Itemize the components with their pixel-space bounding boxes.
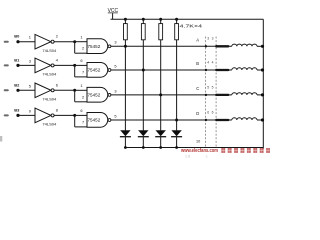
svg-text:6: 6 [80, 108, 82, 113]
svg-text:2: 2 [82, 46, 84, 51]
svg-text:B1: B1 [14, 57, 20, 62]
svg-text:75452: 75452 [88, 44, 102, 49]
svg-text:·1: ·1 [205, 154, 208, 158]
svg-text:75452: 75452 [88, 68, 102, 73]
svg-text:6: 6 [56, 82, 58, 87]
svg-text:5: 5 [29, 83, 31, 88]
svg-text:1: 1 [80, 83, 82, 88]
svg-text:3: 3 [114, 88, 116, 93]
svg-text:74LS04: 74LS04 [42, 48, 57, 53]
svg-text:1 8: 1 8 [185, 155, 190, 159]
svg-text:2: 2 [56, 34, 58, 39]
svg-text:8: 8 [56, 107, 58, 112]
svg-text:7: 7 [82, 69, 84, 74]
svg-text:74LS04: 74LS04 [42, 97, 57, 102]
svg-text:74LS04: 74LS04 [42, 72, 57, 77]
svg-text:B: B [196, 61, 199, 66]
svg-text:5: 5 [212, 85, 214, 89]
svg-text:3: 3 [212, 37, 214, 41]
svg-text:5: 5 [114, 63, 116, 68]
svg-text:75452: 75452 [88, 118, 102, 123]
svg-text:1: 1 [29, 35, 31, 40]
svg-text:74LS04: 74LS04 [42, 122, 57, 127]
svg-text:75452: 75452 [88, 92, 102, 97]
svg-text:2: 2 [82, 94, 84, 99]
svg-text:4.7K×4: 4.7K×4 [180, 23, 203, 28]
svg-text:3: 3 [114, 40, 116, 45]
svg-text:B0: B0 [14, 34, 20, 39]
svg-text:A: A [196, 37, 199, 42]
svg-text:6: 6 [212, 110, 214, 114]
svg-text:B2: B2 [14, 82, 20, 87]
svg-text:5: 5 [207, 85, 209, 89]
svg-text:1: 1 [80, 35, 82, 40]
svg-text:3: 3 [29, 58, 31, 63]
svg-text:B3: B3 [14, 107, 20, 112]
svg-text:3: 3 [207, 37, 209, 41]
svg-text:9: 9 [29, 108, 31, 113]
svg-text:7: 7 [82, 119, 84, 124]
svg-text:C: C [196, 86, 199, 91]
svg-text:6: 6 [207, 110, 209, 114]
svg-text:4: 4 [212, 60, 214, 64]
svg-text:6: 6 [80, 58, 82, 63]
svg-text:10: 10 [196, 140, 200, 144]
svg-text:www.elecfans.com: www.elecfans.com [180, 148, 218, 154]
svg-text:5: 5 [114, 113, 116, 118]
svg-text:D: D [196, 111, 199, 116]
svg-text:4: 4 [207, 60, 209, 64]
